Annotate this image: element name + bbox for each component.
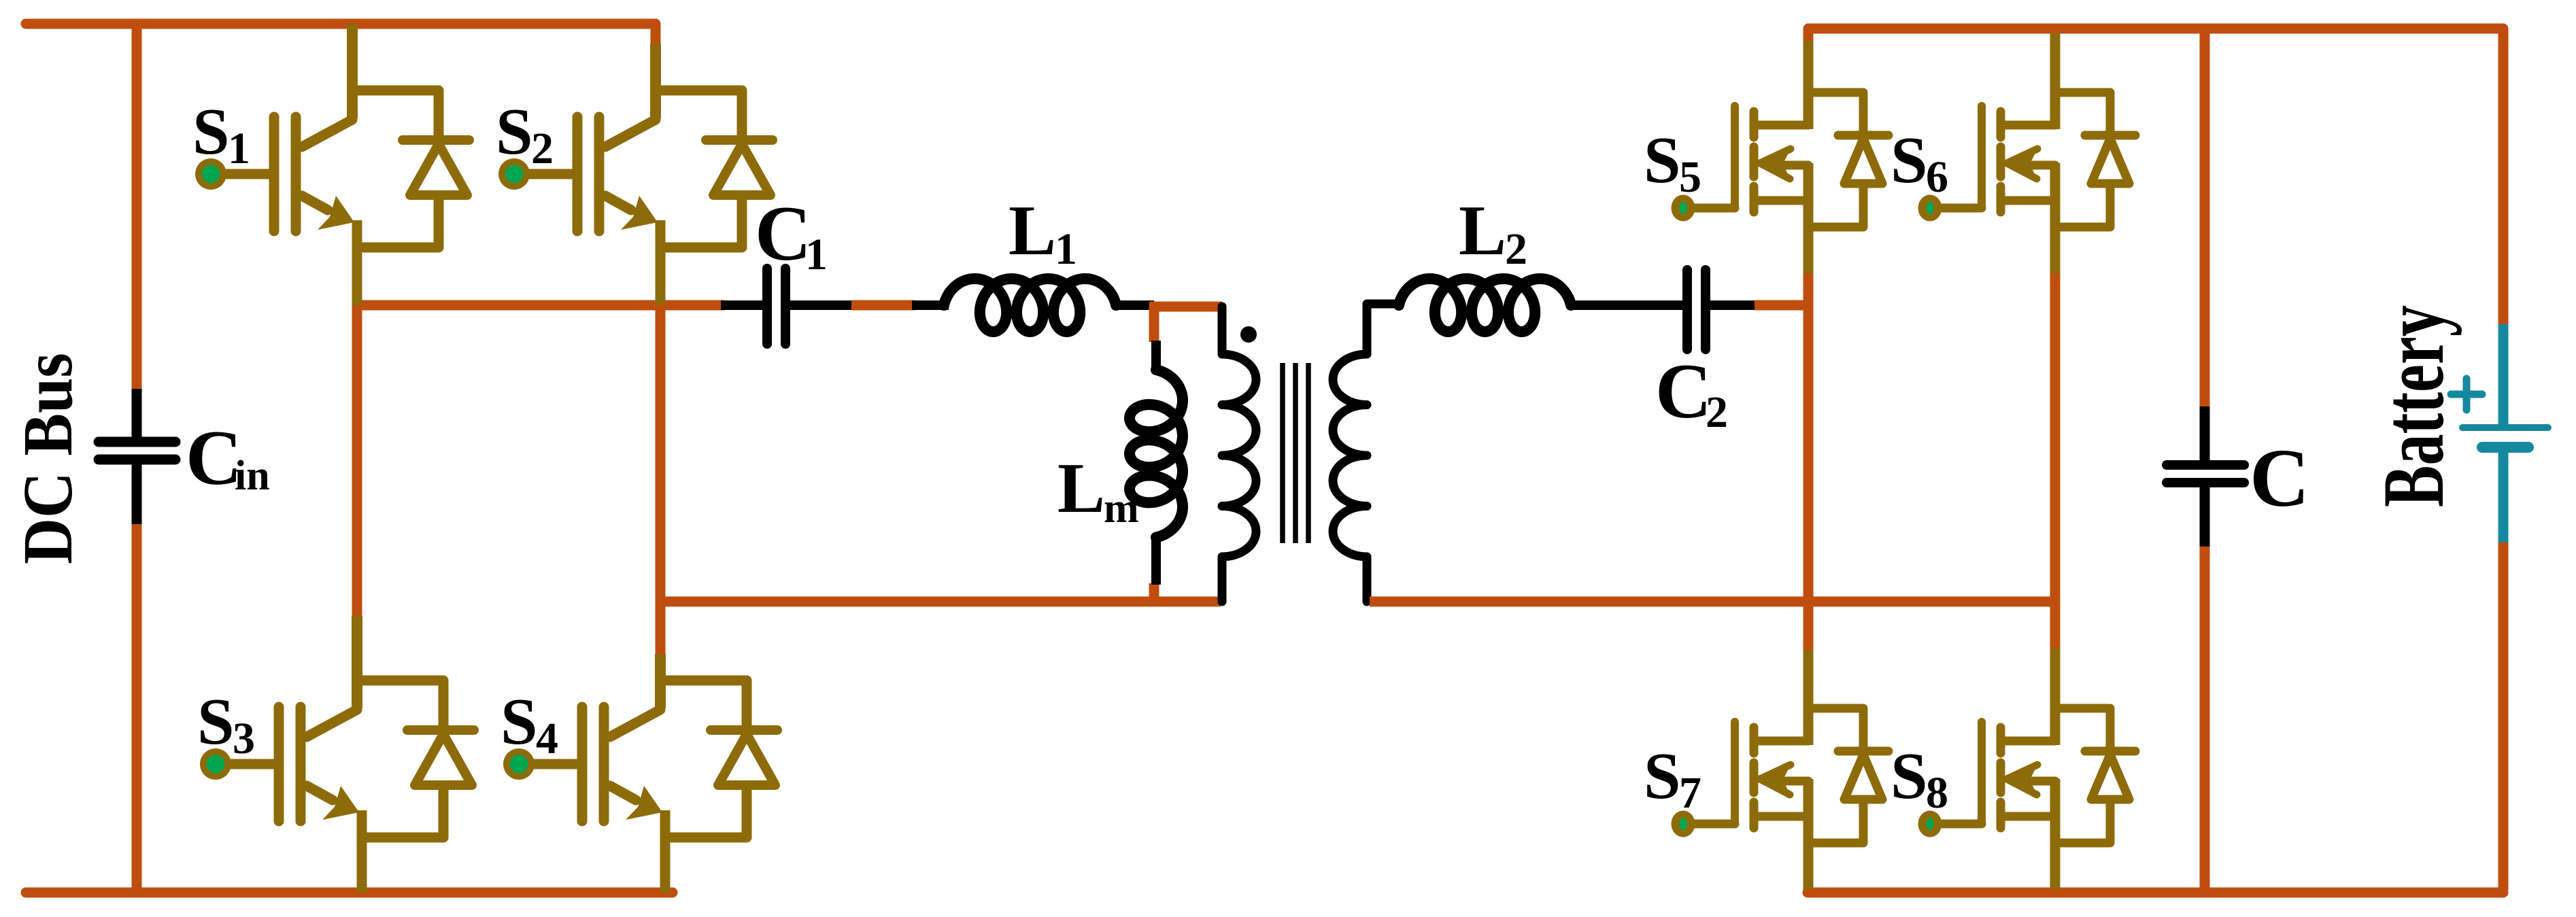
svg-text:S: S <box>192 95 230 169</box>
label S3 <box>197 685 255 763</box>
wire S6/S8 leg lower <box>2050 648 2061 710</box>
wire C column <box>2200 29 2210 893</box>
label C2 <box>1655 348 1728 437</box>
MOSFET S7 <box>1672 707 1864 889</box>
svg-text:Battery: Battery <box>2365 305 2462 507</box>
wire S5 leg top <box>1803 41 1814 129</box>
wire secondary bottom return rail (node D) <box>1370 597 2055 607</box>
wire S7 source to bottom rail <box>1803 863 1814 893</box>
label Battery <box>2365 305 2462 507</box>
svg-text:2: 2 <box>531 124 554 173</box>
capacitor Cin <box>99 389 175 524</box>
transformer core <box>1283 363 1308 543</box>
inductor L1 <box>944 279 1116 332</box>
inductor Lm <box>1130 341 1183 585</box>
IGBT S1 <box>195 24 439 305</box>
body diode of S7 <box>1838 751 1888 841</box>
wire junction to transformer primary top <box>1149 302 1222 312</box>
label DC Bus <box>9 353 87 564</box>
svg-text:3: 3 <box>233 714 255 763</box>
wire S5/S7 leg lower <box>1803 650 1814 710</box>
wire top DC rail (right) <box>1808 29 2503 42</box>
svg-text:C: C <box>755 190 811 277</box>
svg-text:m: m <box>1104 485 1139 532</box>
label S4 <box>501 685 558 763</box>
capacitor C1 <box>767 269 785 344</box>
svg-text:2: 2 <box>1706 387 1728 437</box>
svg-text:8: 8 <box>1926 768 1948 818</box>
freewheeling diode of S2 <box>706 140 773 249</box>
svg-text:1: 1 <box>228 124 250 173</box>
label L2 <box>1459 190 1527 274</box>
IGBT S4 <box>503 654 747 893</box>
label S5 <box>1644 124 1701 202</box>
freewheeling diode of S3 <box>407 730 474 839</box>
label S1 <box>192 95 250 173</box>
svg-text:2: 2 <box>1505 224 1527 274</box>
svg-text:S: S <box>501 685 538 759</box>
svg-text:5: 5 <box>1679 152 1701 202</box>
inductor L2 <box>1399 279 1571 332</box>
label C1 <box>755 190 828 279</box>
body diode of S6 <box>2085 135 2135 225</box>
svg-text:L: L <box>1009 190 1056 270</box>
capacitor C <box>2167 406 2244 547</box>
label S7 <box>1644 740 1701 818</box>
svg-text:L: L <box>1057 448 1105 527</box>
IGBT S2 <box>498 44 742 305</box>
transformer primary winding <box>1222 307 1256 602</box>
wire node B return rail to transformer primary <box>660 597 1221 607</box>
capacitor C2 <box>1687 270 1706 349</box>
svg-text:1: 1 <box>805 230 828 279</box>
body diode of S8 <box>2085 751 2135 841</box>
svg-text:S: S <box>496 95 533 169</box>
freewheeling diode of S1 <box>403 140 469 249</box>
label C <box>2250 432 2309 524</box>
wire top DC bus rail (left) <box>26 24 656 45</box>
body diode of S5 <box>1838 135 1888 225</box>
transformer phase dot <box>1240 326 1257 343</box>
svg-text:7: 7 <box>1679 768 1701 818</box>
MOSFET S5 <box>1672 91 1864 273</box>
wire S6/S8 midpoint column <box>2050 272 2061 651</box>
label S8 <box>1891 740 1948 818</box>
wire node A rail to C1 <box>357 300 724 311</box>
wire C2 to leg (node C) <box>1710 300 1808 310</box>
wire DC input column with Cin <box>132 24 142 893</box>
label Cin <box>186 415 270 501</box>
wire leg2 midpoint column (node B) <box>656 305 666 654</box>
label L1 <box>1009 190 1077 274</box>
MOSFET S6 <box>1918 91 2111 273</box>
wire battery column <box>2498 29 2509 890</box>
MOSFET S8 <box>1918 707 2111 889</box>
wire S6 leg top <box>2050 33 2061 129</box>
label S6 <box>1891 124 1948 202</box>
svg-text:in: in <box>235 453 270 499</box>
svg-text:L: L <box>1459 190 1506 270</box>
svg-text:C: C <box>186 415 242 501</box>
freewheeling diode of S4 <box>711 730 777 839</box>
wire Lm stub <box>1149 307 1159 602</box>
svg-text:S: S <box>1644 124 1681 197</box>
svg-text:S: S <box>1891 740 1928 813</box>
transformer secondary winding <box>1333 304 1399 602</box>
svg-text:C: C <box>1655 348 1712 434</box>
wire node A black segment to C1 <box>721 300 762 310</box>
wire L2 to C2 <box>1568 300 1682 310</box>
wire L1 to junction <box>1113 300 1154 310</box>
battery <box>2451 324 2548 542</box>
svg-text:S: S <box>1891 124 1928 197</box>
svg-text:4: 4 <box>536 714 558 763</box>
svg-text:C: C <box>2250 432 2309 524</box>
svg-text:S: S <box>197 685 235 759</box>
svg-text:1: 1 <box>1055 224 1077 274</box>
label S2 <box>496 95 554 173</box>
svg-text:DC Bus: DC Bus <box>9 353 87 564</box>
IGBT S3 <box>200 616 443 893</box>
wire S8 source to bottom rail <box>2050 863 2061 893</box>
wire bottom rail (right) <box>1808 888 2503 898</box>
svg-text:S: S <box>1644 740 1681 813</box>
label Lm <box>1057 448 1139 532</box>
wire bottom DC bus rail (left) <box>26 888 673 898</box>
wire S5/S7 midpoint column <box>1803 272 1814 653</box>
svg-text:6: 6 <box>1926 152 1948 202</box>
wire leg1 midpoint column (node A) <box>352 302 362 616</box>
wire C1 to L1 <box>790 300 949 310</box>
